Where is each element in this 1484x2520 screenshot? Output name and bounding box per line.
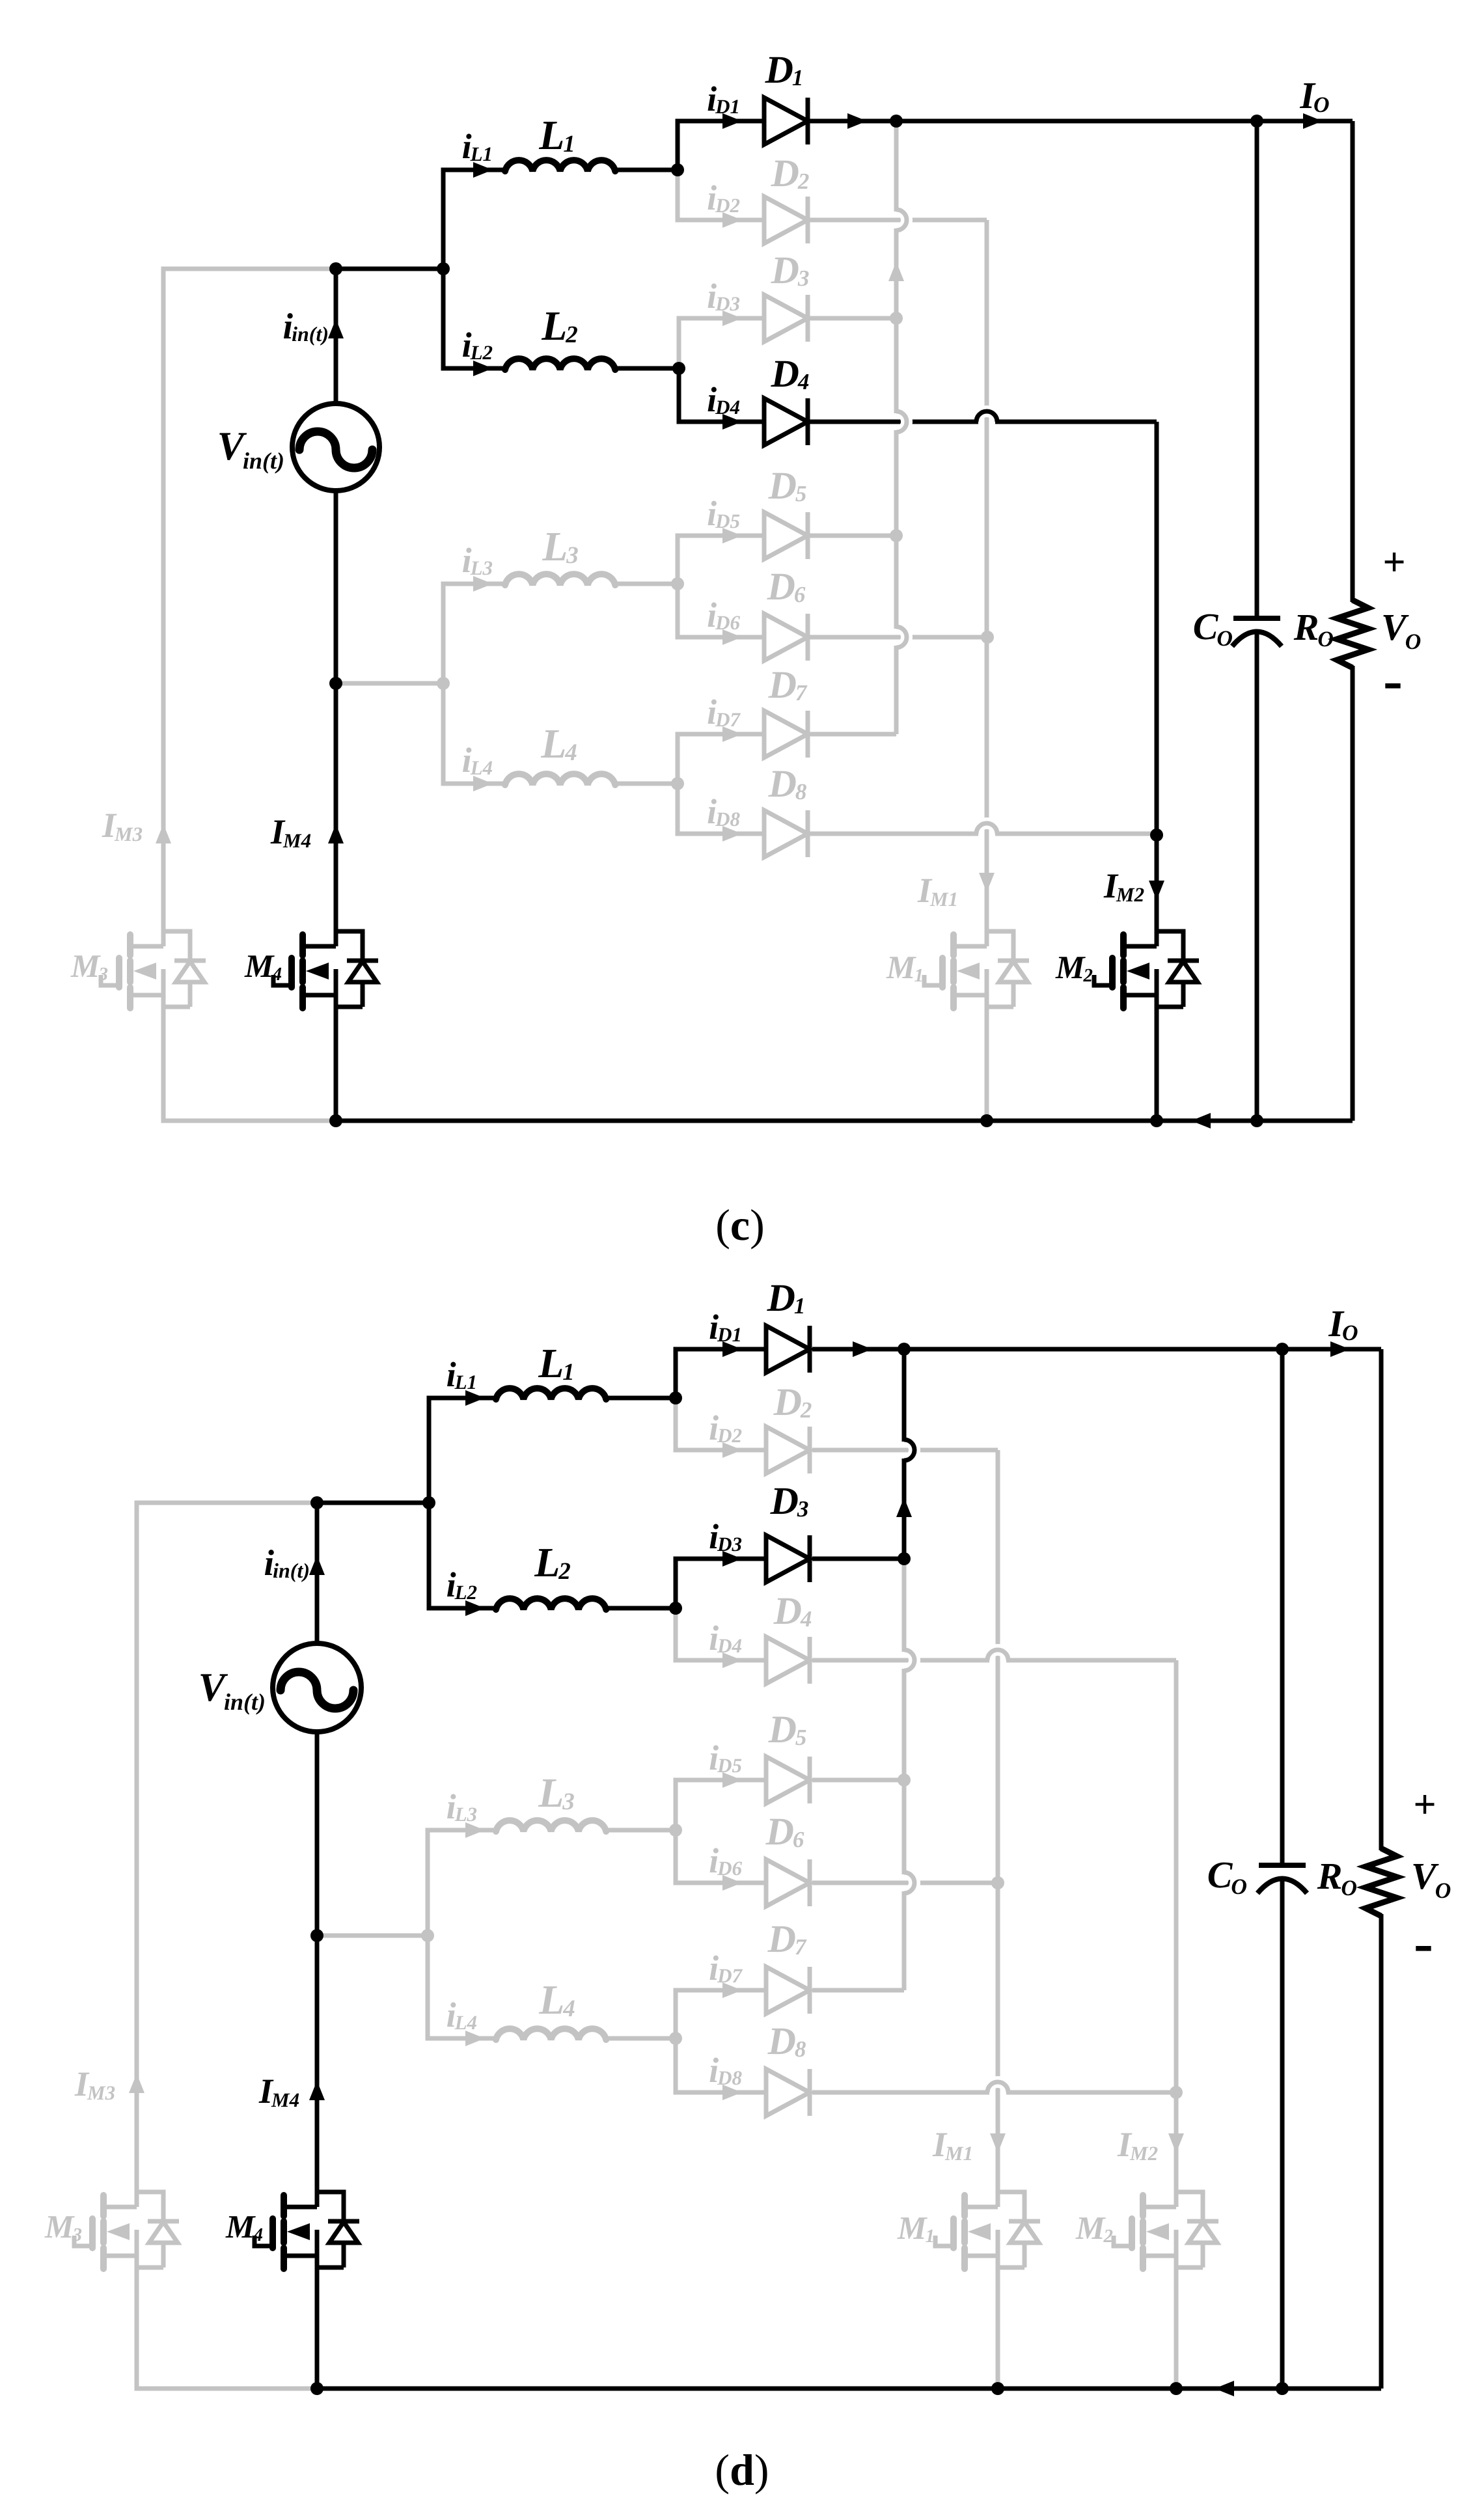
wire: Co top lead bbox=[1255, 121, 1259, 617]
current arrow i_L3 (gray) bbox=[473, 576, 493, 592]
wire: L1 to junction bbox=[615, 168, 678, 172]
wire segment of bus 1 between D6 row and D7 corner (gray) bbox=[902, 1893, 907, 1990]
svg-text:L: L bbox=[540, 720, 566, 767]
svg-text:4: 4 bbox=[272, 964, 282, 985]
arrow after D1 on output rail bbox=[853, 1341, 872, 1357]
svg-text:O: O bbox=[1317, 627, 1334, 651]
junction dot D1 output node bbox=[890, 115, 903, 128]
wire: L1 to junction bbox=[606, 1396, 676, 1401]
wire: node A to node B bbox=[317, 1501, 429, 1505]
svg-text:4: 4 bbox=[797, 369, 810, 394]
svg-text:D8: D8 bbox=[715, 808, 740, 830]
svg-text:L: L bbox=[538, 1977, 564, 2023]
junction dot M1 source on bottom rail bbox=[991, 2382, 1004, 2395]
svg-text:4: 4 bbox=[564, 739, 577, 766]
svg-text:M2: M2 bbox=[1129, 2142, 1158, 2165]
svg-text:D: D bbox=[765, 1810, 794, 1853]
svg-text:D2: D2 bbox=[715, 194, 740, 217]
node C junction dot (gray) bbox=[421, 1929, 434, 1942]
current arrow on bus 1 pointing up (black) bbox=[896, 1498, 912, 1517]
svg-text:D: D bbox=[771, 152, 799, 195]
svg-text:L: L bbox=[542, 523, 568, 569]
svg-text:(d): (d) bbox=[715, 2445, 769, 2495]
svg-text:L: L bbox=[538, 1340, 564, 1386]
svg-text:2: 2 bbox=[1083, 965, 1093, 986]
svg-text:8: 8 bbox=[795, 779, 807, 804]
wire: L3 junction up to D5 anode (gray) bbox=[678, 536, 764, 584]
wire: vertical bus 1 black from hop down to D3 node bbox=[902, 1460, 907, 1559]
svg-text:L4: L4 bbox=[454, 2011, 477, 2034]
transistor M3 (gray) bbox=[127, 935, 133, 955]
diode D7 (gray) bbox=[764, 711, 808, 758]
current arrow on bus 1 pointing up (gray) bbox=[888, 262, 904, 281]
wire: M3 drain loop from input node (gray, fig c) bbox=[163, 269, 336, 946]
wire: Vin bottom lead down to M4 drain bbox=[334, 491, 338, 946]
svg-text:M4: M4 bbox=[271, 2089, 299, 2111]
diode D4 (gray) bbox=[766, 1637, 810, 1684]
wire: M1 source to bottom rail (gray) bbox=[996, 2271, 1000, 2389]
svg-text:in(t): in(t) bbox=[224, 1689, 266, 1715]
junction dot M4 source on bottom rail bbox=[329, 1114, 342, 1127]
wire: D5 cathode to vertical bus 1 (gray) bbox=[808, 534, 896, 538]
svg-text:D: D bbox=[770, 1479, 799, 1522]
transistor M3 (gray) bbox=[100, 2195, 107, 2216]
diode D6 (gray) bbox=[764, 614, 808, 661]
transistor M4 bbox=[299, 935, 306, 955]
wire: Co bottom lead bbox=[1255, 633, 1259, 1121]
svg-text:L1: L1 bbox=[470, 143, 493, 165]
wire: node B down to L2 feed bbox=[443, 269, 505, 368]
arrow on bottom rail pointing left bbox=[1191, 1113, 1211, 1129]
junction dot D6 on vertical bus 2 (gray) bbox=[981, 631, 994, 644]
svg-text:3: 3 bbox=[797, 1496, 809, 1522]
current arrow i_D1 bbox=[722, 113, 742, 129]
wire: top output rail from D1 cathode to right corner bbox=[808, 119, 1353, 124]
svg-text:2: 2 bbox=[565, 322, 578, 348]
svg-text:M2: M2 bbox=[1116, 883, 1144, 906]
svg-text:D7: D7 bbox=[715, 708, 741, 731]
svg-text:L: L bbox=[538, 112, 564, 158]
svg-text:D: D bbox=[767, 2020, 796, 2062]
wire: D7 cathode to vertical bus 1 corner (gray) bbox=[812, 1988, 904, 1993]
svg-text:R: R bbox=[1317, 1855, 1343, 1897]
svg-text:L3: L3 bbox=[470, 556, 493, 579]
junction dot at L2 output bbox=[672, 362, 685, 375]
current arrow i_L4 (gray) bbox=[465, 2031, 485, 2046]
wire: node A to node B bbox=[336, 267, 443, 271]
current arrow I_M4 bbox=[328, 824, 344, 843]
svg-text:L2: L2 bbox=[470, 341, 493, 364]
capacitor Co bbox=[1259, 1863, 1306, 1868]
wire crossover: bus 1 hops over D6 line (gray) bbox=[896, 627, 907, 648]
wire: M1 source to bottom rail (gray) bbox=[985, 1011, 989, 1121]
svg-text:-: - bbox=[1383, 648, 1403, 713]
current arrow i_D5 (gray) bbox=[722, 528, 742, 543]
svg-text:M: M bbox=[70, 948, 101, 984]
wire crossover: D8 line hops over vertical bus 2 (gray) bbox=[976, 823, 997, 834]
wire: L4 junction down to D8 anode (gray) bbox=[676, 2038, 766, 2092]
svg-text:3: 3 bbox=[98, 964, 109, 985]
diode D5 (gray) bbox=[766, 1757, 810, 1803]
AC source Vin(t) bbox=[292, 404, 379, 491]
wire: L2 junction down to D4 anode (gray) bbox=[676, 1608, 766, 1660]
diode D1 bbox=[766, 1326, 810, 1373]
junction dot M1 source on bottom rail bbox=[980, 1114, 993, 1127]
svg-text:D1: D1 bbox=[715, 95, 740, 118]
wire: node B up to L1 feed bbox=[443, 170, 505, 269]
wire: M3 source to bottom rail (gray) bbox=[137, 2271, 317, 2389]
svg-text:D: D bbox=[768, 663, 797, 706]
junction dot D3 output on bus 1 bbox=[898, 1552, 911, 1565]
svg-text:L2: L2 bbox=[454, 1581, 477, 1604]
svg-text:D: D bbox=[771, 352, 799, 395]
inductor L1 bbox=[505, 160, 615, 171]
svg-text:5: 5 bbox=[795, 481, 807, 506]
wire: L2 to junction bbox=[606, 1606, 676, 1611]
svg-text:7: 7 bbox=[795, 1934, 807, 1960]
diode D8 (gray) bbox=[766, 2069, 810, 2116]
wire: D3 cathode to bus 1 junction bbox=[812, 1557, 904, 1561]
wire: D4 line after hop to M2 drain corner (gray) bbox=[1008, 1658, 1176, 1663]
current arrow I_M1 (gray) bbox=[979, 873, 995, 892]
svg-text:D: D bbox=[768, 762, 797, 805]
wire: L4 junction up to D7 anode (gray) bbox=[676, 1990, 766, 2038]
svg-text:L: L bbox=[541, 303, 567, 349]
wire: D8 cathode toward M2 drain line with hop (gray) bbox=[808, 832, 976, 836]
wire: D4 cathode toward hop over bus 2 (gray) bbox=[812, 1658, 987, 1663]
diode D7 (gray) bbox=[766, 1967, 810, 2014]
svg-text:D: D bbox=[773, 1589, 802, 1632]
current arrow i_D7 (gray) bbox=[722, 1982, 742, 1998]
wire: L4 junction up to D7 anode (gray) bbox=[678, 734, 764, 784]
svg-text:O: O bbox=[1342, 1321, 1358, 1345]
svg-text:4: 4 bbox=[253, 2225, 264, 2245]
svg-text:L: L bbox=[534, 1539, 560, 1585]
inductor L3 (gray) bbox=[496, 1820, 606, 1831]
wire segment of bus 1 between D2 and D4 rows (gray) bbox=[894, 230, 899, 411]
wire: L4 to junction (gray) bbox=[606, 2036, 676, 2041]
wire: vertical bus 2 from D2 down to M1 drain (gray) bbox=[985, 220, 989, 946]
svg-text:D: D bbox=[768, 464, 797, 507]
capacitor Co bbox=[1233, 616, 1280, 621]
junction dot D3 output on bus 1 (gray) bbox=[890, 312, 903, 325]
svg-text:3: 3 bbox=[566, 542, 579, 569]
svg-text:3: 3 bbox=[797, 266, 810, 291]
svg-text:7: 7 bbox=[795, 680, 808, 705]
wire crossover: bus 1 hops over D2 line (black) bbox=[904, 1440, 914, 1460]
current arrow i_L2 bbox=[473, 361, 493, 376]
wire segment of bus 1 between D6 row and D7 corner (gray) bbox=[894, 648, 899, 734]
diode D2 (gray) bbox=[764, 197, 808, 243]
resistor Ro bbox=[1366, 1848, 1397, 1916]
diode D3 bbox=[766, 1535, 810, 1582]
svg-text:1: 1 bbox=[794, 1293, 806, 1319]
wire: D8 line after hop to M2 drain (gray) bbox=[1008, 2090, 1176, 2095]
junction dot at L3 output (gray) bbox=[669, 1824, 682, 1837]
wire: M4 source to bottom rail bbox=[334, 1011, 338, 1121]
svg-text:O: O bbox=[1405, 630, 1422, 654]
wire: vertical bus 1 from D1 node down to D7 corner with hops (gray) bbox=[894, 124, 899, 210]
wire: Vin bottom lead down to M4 drain bbox=[315, 1732, 320, 2207]
svg-text:M3: M3 bbox=[87, 2081, 115, 2104]
svg-text:2: 2 bbox=[1103, 2226, 1114, 2247]
current arrow i_D6 (gray) bbox=[722, 1875, 742, 1891]
wire: D8 line after hop to M2 drain (gray) bbox=[997, 832, 1157, 836]
wire: right rail top segment bbox=[1351, 121, 1355, 602]
svg-text:M3: M3 bbox=[114, 823, 143, 845]
wire: L2 junction down to D4 anode bbox=[679, 368, 764, 422]
svg-text:D3: D3 bbox=[717, 1533, 742, 1555]
current arrow I_M1 (gray) bbox=[990, 2133, 1006, 2153]
transistor M4 bbox=[281, 2195, 287, 2216]
junction dot at L1 output bbox=[669, 1391, 682, 1404]
svg-text:D3: D3 bbox=[715, 292, 740, 315]
transistor M2 bbox=[1120, 935, 1127, 955]
current arrow i_D7 (gray) bbox=[722, 726, 742, 742]
wire: M3 drain loop from input node (gray, fig d) bbox=[137, 1503, 317, 2207]
svg-text:O: O bbox=[1313, 93, 1330, 117]
current arrow I_M3 (gray) bbox=[129, 2074, 144, 2093]
svg-text:1: 1 bbox=[914, 965, 924, 986]
svg-text:-: - bbox=[1414, 1911, 1433, 1975]
wire: L3 junction down to D6 anode (gray) bbox=[676, 1830, 766, 1883]
svg-text:D5: D5 bbox=[715, 510, 740, 532]
svg-text:D1: D1 bbox=[717, 1323, 742, 1346]
wire: M2 source to bottom rail (gray) bbox=[1174, 2271, 1179, 2389]
current arrow i_D4 bbox=[722, 414, 742, 430]
svg-text:M: M bbox=[244, 948, 275, 984]
wire: node C up to L3 feed (gray) bbox=[443, 584, 505, 683]
wire: vertical bus 2 from D2 down to M1 drain (gray) bbox=[996, 1450, 1000, 2207]
current arrow i_L3 (gray) bbox=[465, 1822, 485, 1838]
node B junction dot bbox=[437, 262, 450, 275]
current arrow i_in on Vin lead bbox=[309, 1555, 325, 1575]
wire: D3 cathode to vertical bus 1 (gray) bbox=[808, 316, 896, 321]
svg-text:M: M bbox=[1075, 2210, 1106, 2246]
wire crossover: D8 line hops over vertical bus 2 (gray) bbox=[987, 2082, 1008, 2092]
inductor L4 (gray) bbox=[505, 774, 615, 785]
svg-text:D2: D2 bbox=[717, 1424, 742, 1447]
wire: right rail bottom segment bbox=[1379, 1914, 1384, 2389]
wire: node C down to L4 feed (gray) bbox=[443, 683, 505, 784]
svg-text:D6: D6 bbox=[715, 611, 740, 634]
wire: node C up to L3 feed (gray) bbox=[428, 1830, 496, 1936]
wire: L1 junction up to D1 anode bbox=[676, 1349, 766, 1398]
wire: M3 source to bottom rail (gray) bbox=[163, 1011, 336, 1121]
svg-text:D: D bbox=[773, 1380, 802, 1423]
svg-text:1: 1 bbox=[926, 2226, 935, 2247]
current arrow i_D8 (gray) bbox=[722, 826, 742, 842]
svg-text:D8: D8 bbox=[717, 2066, 742, 2089]
wire: D8 cathode toward M2 drain line with hop (gray) bbox=[812, 2090, 987, 2095]
svg-text:L4: L4 bbox=[470, 756, 493, 779]
junction dot D8 joins M2 drain (gray) bbox=[1170, 2086, 1183, 2099]
wire segment of bus 1 between D4 and D6 rows (gray) bbox=[894, 432, 899, 627]
wire segment of bus 1 between D4 and D6 rows (gray) bbox=[902, 1671, 907, 1872]
resistor Ro bbox=[1337, 600, 1368, 668]
junction dot D6 on vertical bus 2 (gray) bbox=[991, 1876, 1004, 1889]
current arrow i_L1 bbox=[473, 162, 493, 178]
svg-text:O: O bbox=[1435, 1879, 1451, 1903]
diode D1 bbox=[764, 98, 808, 144]
current arrow i_D5 (gray) bbox=[722, 1772, 742, 1788]
wire: L4 junction down to D8 anode (gray) bbox=[678, 784, 764, 834]
node B junction dot bbox=[422, 1496, 435, 1509]
transistor M1 (gray) bbox=[950, 935, 957, 955]
junction dot at L3 output (gray) bbox=[671, 577, 684, 590]
junction dot at node C tap on Vin line bbox=[329, 677, 342, 690]
wire: D7 cathode to vertical bus 1 corner (gray) bbox=[808, 732, 896, 737]
node A: input top junction dot bbox=[329, 262, 342, 275]
transistor M1 (gray) bbox=[961, 2195, 968, 2216]
wire: tap from Vin line to node C (gray) bbox=[317, 1934, 428, 1938]
svg-text:6: 6 bbox=[794, 582, 806, 607]
inductor L1 bbox=[496, 1388, 606, 1399]
wire crossover: bus 1 hops over D6 line (gray) bbox=[904, 1872, 914, 1893]
diode D3 (gray) bbox=[764, 295, 808, 342]
wire: top output rail from D1 cathode to right corner bbox=[812, 1347, 1381, 1352]
svg-text:D5: D5 bbox=[717, 1754, 742, 1777]
inductor L2 bbox=[505, 359, 615, 370]
junction dot D5 output (gray) bbox=[898, 1774, 911, 1787]
wire: D5 cathode to vertical bus 1 (gray) bbox=[812, 1778, 904, 1783]
node A: input top junction dot (fig d) bbox=[310, 1496, 323, 1509]
wire crossover: D4 line hops over vertical bus 2 (gray) bbox=[987, 1650, 1008, 1660]
current arrow I_M4 bbox=[309, 2081, 325, 2100]
svg-text:L: L bbox=[538, 1770, 564, 1816]
svg-text:O: O bbox=[1231, 1875, 1247, 1899]
svg-text:O: O bbox=[1216, 627, 1233, 651]
wire: L1 junction up to D1 anode bbox=[678, 121, 764, 170]
svg-text:2: 2 bbox=[800, 1397, 812, 1423]
svg-text:M1: M1 bbox=[929, 888, 958, 911]
wire crossover: D4 line hops over vertical bus 2 bbox=[976, 411, 997, 422]
svg-text:D: D bbox=[767, 1917, 796, 1960]
wire: L2 to junction bbox=[615, 366, 679, 371]
svg-text:3: 3 bbox=[562, 1788, 575, 1815]
current arrow i_D8 (gray) bbox=[722, 2085, 742, 2100]
svg-text:3: 3 bbox=[72, 2225, 83, 2245]
arrow on bottom rail pointing left bbox=[1215, 2381, 1234, 2396]
wire: L3 junction down to D6 anode (gray) bbox=[678, 584, 764, 637]
svg-text:D: D bbox=[768, 1708, 797, 1751]
junction dot M2 source on bottom rail bbox=[1170, 2382, 1183, 2395]
svg-text:+: + bbox=[1413, 1783, 1436, 1827]
wire: bottom return rail bbox=[317, 2387, 1381, 2391]
junction dot Co bottom on bottom rail bbox=[1276, 2382, 1289, 2395]
wire: right rail top segment bbox=[1379, 1349, 1384, 1850]
wire: node B up to L1 feed bbox=[429, 1398, 496, 1503]
svg-text:D6: D6 bbox=[717, 1857, 742, 1880]
wire: M2 source to bottom rail bbox=[1155, 1011, 1159, 1121]
svg-text:M: M bbox=[44, 2208, 75, 2245]
diode D6 (gray) bbox=[766, 1859, 810, 1906]
wire: tap from Vin line to node C (gray) bbox=[336, 681, 443, 686]
wire: node C down to L4 feed (gray) bbox=[428, 1936, 496, 2038]
svg-text:O: O bbox=[1341, 1876, 1357, 1900]
current arrow i_L4 (gray) bbox=[473, 776, 493, 791]
svg-text:M1: M1 bbox=[944, 2142, 973, 2165]
wire: Vin top lead to node A bbox=[315, 1503, 320, 1643]
current arrow I_M2 bbox=[1149, 881, 1164, 900]
junction dot M4 source on bottom rail bbox=[310, 2382, 323, 2395]
wire: L3 junction up to D5 anode (gray) bbox=[676, 1780, 766, 1830]
svg-text:C: C bbox=[1207, 1854, 1233, 1896]
svg-text:2: 2 bbox=[558, 1558, 571, 1585]
junction dot D8 joins M2 drain bbox=[1150, 829, 1163, 842]
svg-text:D: D bbox=[765, 48, 793, 91]
diode D4 bbox=[764, 398, 808, 445]
wire: Vin top lead to node A bbox=[334, 269, 338, 404]
svg-text:M: M bbox=[225, 2208, 256, 2245]
wire: L3 to junction (gray) bbox=[615, 582, 678, 586]
wire crossover: bus 1 hops over D4 line (gray) bbox=[896, 411, 907, 432]
current arrow I_M3 (gray) bbox=[156, 824, 171, 843]
wire: D6 cathode to vertical bus 2 (gray) bbox=[808, 635, 987, 640]
svg-text:6: 6 bbox=[793, 1827, 804, 1852]
svg-text:M: M bbox=[1055, 949, 1086, 985]
current arrow i_D1 bbox=[722, 1341, 742, 1357]
arrow after D1 on output rail bbox=[847, 113, 867, 129]
current arrow I_O bbox=[1303, 113, 1323, 129]
svg-text:M: M bbox=[897, 2210, 927, 2246]
diode D8 (gray) bbox=[764, 810, 808, 857]
current arrow i_in on Vin lead bbox=[328, 319, 344, 338]
svg-text:L3: L3 bbox=[454, 1803, 477, 1826]
svg-text:4: 4 bbox=[562, 1995, 575, 2022]
AC source Vin(t) bbox=[273, 1643, 361, 1732]
current arrow i_D2 (gray) bbox=[722, 212, 742, 228]
junction dot Co top bbox=[1276, 1343, 1289, 1356]
wire crossover: bus 1 hops over D4 line (gray) bbox=[904, 1650, 914, 1671]
wire: M2 drain vertical (gray) bbox=[1174, 1660, 1179, 2207]
wire: M4 source to bottom rail bbox=[315, 2271, 320, 2389]
transistor M2 (gray) bbox=[1140, 2195, 1146, 2216]
svg-text:R: R bbox=[1293, 606, 1319, 648]
current arrow i_D3 (gray) bbox=[722, 310, 742, 326]
wire: L3 to junction (gray) bbox=[606, 1828, 676, 1833]
wire: vertical bus 1 black from D1 node down to hop bbox=[902, 1352, 907, 1440]
wire: Co top lead bbox=[1280, 1349, 1285, 1864]
wire: L2 junction up to D3 anode (gray) bbox=[679, 318, 764, 368]
inductor L3 (gray) bbox=[505, 574, 615, 585]
wire: D6 cathode to vertical bus 2 (gray) bbox=[812, 1881, 998, 1885]
svg-text:in(t): in(t) bbox=[273, 1559, 310, 1582]
svg-text:1: 1 bbox=[792, 65, 804, 90]
svg-text:D4: D4 bbox=[715, 396, 740, 418]
current arrow i_D3 bbox=[722, 1551, 742, 1567]
wire: L4 to junction (gray) bbox=[615, 782, 678, 786]
inductor L4 (gray) bbox=[496, 2029, 606, 2040]
svg-text:C: C bbox=[1193, 605, 1219, 648]
svg-text:1: 1 bbox=[562, 1359, 575, 1386]
diode D2 (gray) bbox=[766, 1427, 810, 1473]
wire: D2 cathode to vertical bus 2 corner (gray) bbox=[808, 218, 987, 223]
svg-text:8: 8 bbox=[795, 2036, 806, 2062]
junction dot D1 output node bbox=[898, 1343, 911, 1356]
svg-text:L1: L1 bbox=[454, 1371, 477, 1393]
wire: D2 cathode to vertical bus 2 corner (gray) bbox=[812, 1448, 998, 1453]
svg-text:D: D bbox=[767, 565, 795, 608]
current arrow I_O bbox=[1330, 1341, 1350, 1357]
wire: M2 drain vertical bbox=[1155, 422, 1159, 946]
svg-text:M4: M4 bbox=[282, 829, 311, 852]
svg-text:2: 2 bbox=[797, 169, 810, 194]
current arrow i_D2 (gray) bbox=[722, 1442, 742, 1458]
svg-text:+: + bbox=[1382, 540, 1405, 584]
wire: vertical bus 1 gray section from D3 node to D7 corner (fig d) bbox=[902, 1559, 907, 1650]
current arrow i_L1 bbox=[465, 1390, 485, 1406]
